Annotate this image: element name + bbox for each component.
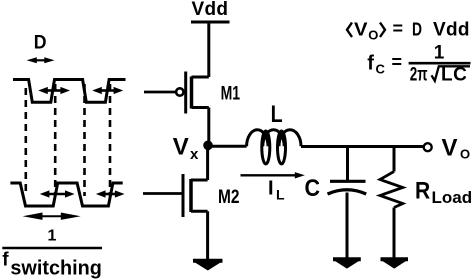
Vdd rail bar xyxy=(191,21,230,24)
wire: gate of M2 xyxy=(143,192,183,195)
D width arrow xyxy=(27,57,55,63)
wire: gate of M1 xyxy=(144,91,176,94)
svg-text:L: L xyxy=(271,101,283,128)
svg-text:O: O xyxy=(368,27,378,42)
svg-text:x: x xyxy=(190,146,199,163)
dashed edge line 2 xyxy=(54,84,57,196)
svg-text:C: C xyxy=(376,62,386,77)
transistor M2 (NMOS) xyxy=(183,174,208,217)
svg-text:=: = xyxy=(392,52,403,72)
svg-text:D: D xyxy=(34,32,47,53)
svg-text:V: V xyxy=(442,135,458,162)
edge modulation arrow (top waveform, edge 2) xyxy=(92,87,123,94)
wire: node Vx to M2 drain xyxy=(206,145,209,180)
node Vx xyxy=(203,141,213,151)
waveform: M2 gate drive (bottom PWM) xyxy=(10,183,122,206)
svg-text:f: f xyxy=(367,52,374,74)
svg-text:f: f xyxy=(2,250,9,271)
dashed edge line 3 xyxy=(83,84,86,196)
ground (RLoad) xyxy=(381,259,409,268)
svg-text:2π: 2π xyxy=(410,65,428,86)
wire: Vdd to M1 drain xyxy=(207,22,210,77)
capacitor C xyxy=(328,147,367,259)
svg-text:O: O xyxy=(460,147,470,162)
dashed edge line 1 xyxy=(24,88,27,196)
output terminal xyxy=(424,143,432,151)
waveform: M1 gate drive (top PWM) xyxy=(13,80,126,103)
svg-text:Vdd: Vdd xyxy=(192,0,229,20)
svg-text:Load: Load xyxy=(432,188,473,207)
wire: inductor to output xyxy=(301,145,423,148)
svg-text:D: D xyxy=(412,19,422,39)
svg-text:1: 1 xyxy=(48,228,57,245)
resistor RLoad xyxy=(380,147,403,259)
svg-text:switching: switching xyxy=(10,258,102,280)
wire: node Vx to inductor xyxy=(208,145,247,148)
svg-text:Vdd: Vdd xyxy=(433,19,470,40)
svg-text:=: = xyxy=(393,19,404,39)
wire: M2 source to ground xyxy=(206,211,209,259)
svg-text:V: V xyxy=(173,134,189,161)
svg-text:R: R xyxy=(415,177,430,204)
svg-text:L: L xyxy=(276,187,285,203)
edge modulation arrow (bottom waveform, edge 2) xyxy=(96,190,125,197)
svg-text:V: V xyxy=(354,19,368,39)
svg-text:C: C xyxy=(305,175,321,202)
ground (C) xyxy=(333,259,361,268)
svg-text:M1: M1 xyxy=(221,83,241,104)
dashed edge line 4 xyxy=(109,84,112,196)
svg-text:I: I xyxy=(268,177,274,199)
period arrow (1/f_switching span) xyxy=(23,213,81,220)
svg-text:LC: LC xyxy=(441,65,467,86)
svg-text:M2: M2 xyxy=(218,187,240,208)
edge modulation arrow (top waveform, edge 1) xyxy=(38,87,70,94)
wire: M1 source to node Vx xyxy=(207,108,210,147)
ground (M2) xyxy=(193,261,223,271)
transistor M1 (PMOS) xyxy=(176,72,209,114)
inductor L xyxy=(247,130,301,164)
edge modulation arrow (bottom waveform, edge 1) xyxy=(40,190,75,197)
current arrow IL xyxy=(241,172,305,178)
svg-text:1: 1 xyxy=(434,43,445,64)
equation 1: <Vo> = D Vdd xyxy=(347,23,352,38)
